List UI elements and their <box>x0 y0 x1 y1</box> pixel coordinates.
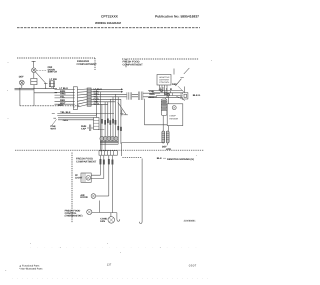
svg-text:BLK-G: BLK-G <box>193 94 201 97</box>
svg-text:WIRING DIAGRAM: WIRING DIAGRAM <box>95 21 121 25</box>
svg-text:DOOR: DOOR <box>80 196 87 199</box>
svg-text:(THERMOSTAT): (THERMOSTAT) <box>65 215 83 218</box>
svg-text:CPT31XXX: CPT31XXX <box>101 14 119 18</box>
svg-text:CAP: CAP <box>81 128 86 131</box>
svg-text:COMP: COMP <box>169 115 176 118</box>
svg-text:316088861: 316088861 <box>184 219 197 222</box>
svg-text:ORG: ORG <box>63 119 69 122</box>
svg-text:Publication No: 5995416837: Publication No: 5995416837 <box>155 14 199 18</box>
svg-text:FAN: FAN <box>100 220 105 223</box>
svg-text:LIGHT: LIGHT <box>75 176 83 179</box>
svg-text:BLK: BLK <box>58 104 63 107</box>
svg-text:SWITCH: SWITCH <box>48 70 58 73</box>
svg-text:BLK: BLK <box>149 96 154 99</box>
svg-text:BLK: BLK <box>157 157 162 160</box>
svg-text:COMPARTMENT: COMPARTMENT <box>123 63 144 66</box>
svg-text:0307: 0307 <box>189 263 197 267</box>
svg-text:DEF: DEF <box>19 76 24 79</box>
svg-text:COMPARTMENT: COMPARTMENT <box>77 63 98 66</box>
svg-text:COMPARTMENT: COMPARTMENT <box>76 160 97 163</box>
svg-text:RESSOR: RESSOR <box>169 117 178 120</box>
svg-text:WHT: WHT <box>51 128 57 131</box>
svg-text:DENOTES GROUND (G): DENOTES GROUND (G) <box>167 158 194 161</box>
svg-text:HTR: HTR <box>166 148 171 151</box>
svg-text:CONTROL: CONTROL <box>159 81 170 84</box>
svg-text:137: 137 <box>107 263 112 266</box>
svg-text:* Non-Illustrated Parts: * Non-Illustrated Parts <box>19 268 43 271</box>
